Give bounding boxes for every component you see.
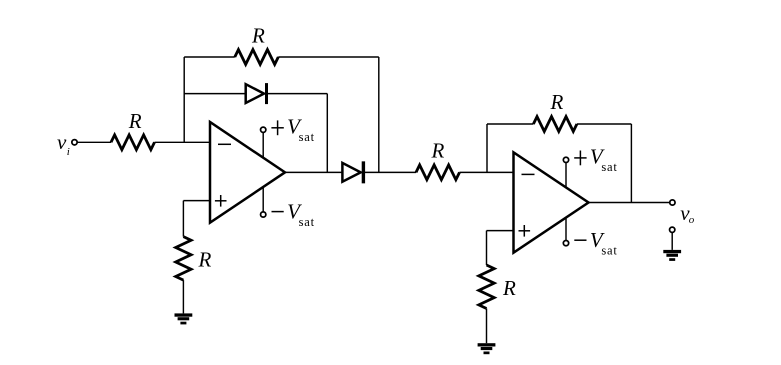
svg-text:R: R xyxy=(502,276,516,300)
svg-text:o: o xyxy=(689,214,695,226)
svg-text:R: R xyxy=(550,90,564,114)
svg-text:sat: sat xyxy=(299,215,315,229)
svg-text:R: R xyxy=(198,247,212,271)
svg-text:i: i xyxy=(67,146,70,158)
svg-text:R: R xyxy=(251,23,265,47)
svg-text:v: v xyxy=(57,130,67,154)
svg-text:R: R xyxy=(128,109,142,133)
svg-text:sat: sat xyxy=(601,243,617,257)
svg-text:sat: sat xyxy=(299,130,315,144)
svg-text:R: R xyxy=(431,139,445,163)
svg-text:sat: sat xyxy=(601,160,617,174)
